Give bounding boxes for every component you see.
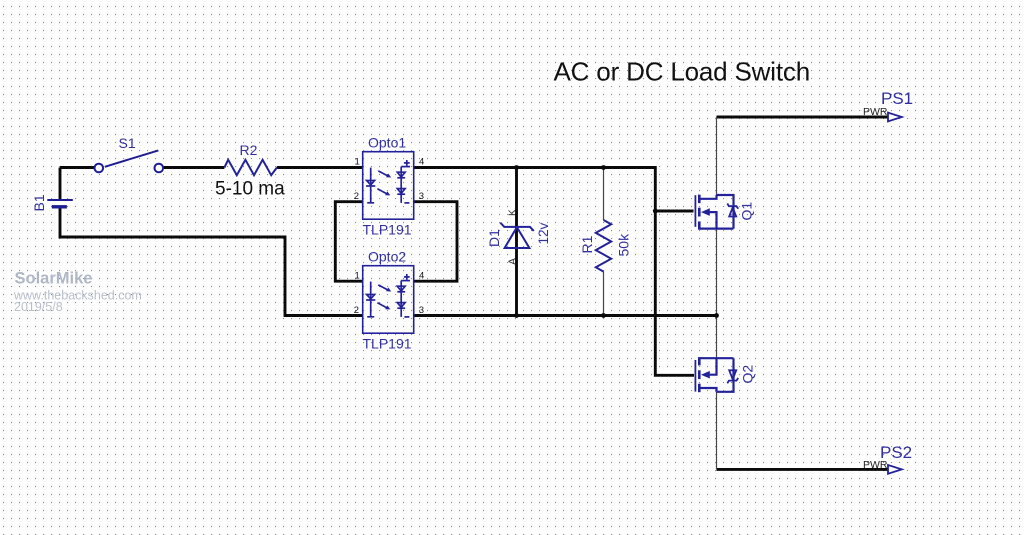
wire R1 branch bottom <box>603 272 605 316</box>
battery B1 <box>47 200 73 207</box>
svg-text:S1: S1 <box>119 135 136 151</box>
wire Q2 to PS2 <box>716 392 718 469</box>
junction dot bottom rail at D1 <box>514 313 519 318</box>
optocoupler U Opto1 <box>354 152 425 220</box>
wire Q1 drain to PS1 <box>716 117 718 196</box>
wire PS2 <box>717 468 889 471</box>
wire R1 branch top <box>603 168 605 221</box>
wire Q1 source to common node <box>716 229 718 316</box>
wire bottom rail Opto2 pin3 to Q sources <box>414 314 717 317</box>
zener diode D1 <box>500 223 534 248</box>
wire Opto1 pin3 to Opto2 pin4 <box>414 202 457 282</box>
junction dot Q1 gate <box>653 209 658 214</box>
wire PS1 <box>717 116 889 119</box>
svg-text:A: A <box>507 258 518 265</box>
svg-text:SolarMike: SolarMike <box>15 270 93 288</box>
svg-text:PWR: PWR <box>863 106 888 118</box>
svg-text:50k: 50k <box>616 233 632 257</box>
wire common node to Q2 <box>716 316 718 359</box>
wire Opto1 pin4 to gate column <box>414 168 694 376</box>
svg-text:AC or DC Load Switch: AC or DC Load Switch <box>554 57 811 87</box>
svg-text:Q1: Q1 <box>739 202 755 221</box>
junction dot common sources node <box>714 313 719 318</box>
switch S1 <box>95 150 164 172</box>
wire S1 to R2 <box>163 166 224 169</box>
wire Q1 gate stub <box>655 210 693 213</box>
svg-text:TLP191: TLP191 <box>363 336 412 352</box>
wire battery top to S1 <box>60 166 94 169</box>
wire battery bottom loop to Opto2 pin2 <box>60 208 363 316</box>
wire battery top stub <box>59 168 62 200</box>
port arrow PS1 <box>888 113 902 122</box>
svg-text:2019/5/8: 2019/5/8 <box>14 300 63 314</box>
transistor Q2 <box>695 357 738 392</box>
wire R2 to Opto1 pin1 <box>277 166 363 169</box>
svg-text:Q2: Q2 <box>740 365 756 384</box>
resistor R1 <box>596 220 611 272</box>
svg-text:R1: R1 <box>579 235 595 253</box>
junction dot top rail at R1 <box>601 165 606 170</box>
junction dot bottom rail at R1 <box>601 313 606 318</box>
svg-text:TLP191: TLP191 <box>363 222 412 238</box>
svg-text:R2: R2 <box>240 142 258 158</box>
wire D1 branch <box>515 168 518 316</box>
wire Opto1 pin2 to Opto2 pin1 <box>335 202 362 282</box>
svg-text:B1: B1 <box>31 194 47 211</box>
svg-text:12v: 12v <box>536 222 551 244</box>
resistor R2 <box>224 160 277 175</box>
svg-text:5-10 ma: 5-10 ma <box>215 179 285 200</box>
svg-text:Opto2: Opto2 <box>368 249 406 265</box>
svg-text:D1: D1 <box>486 229 502 247</box>
svg-text:K: K <box>508 209 519 216</box>
optocoupler U Opto2 <box>354 266 425 334</box>
transistor Q1 <box>695 195 738 230</box>
svg-text:PWR: PWR <box>863 459 888 471</box>
junction dot top rail at D1 <box>514 165 519 170</box>
svg-text:Opto1: Opto1 <box>368 135 406 151</box>
port arrow PS2 <box>888 465 902 474</box>
